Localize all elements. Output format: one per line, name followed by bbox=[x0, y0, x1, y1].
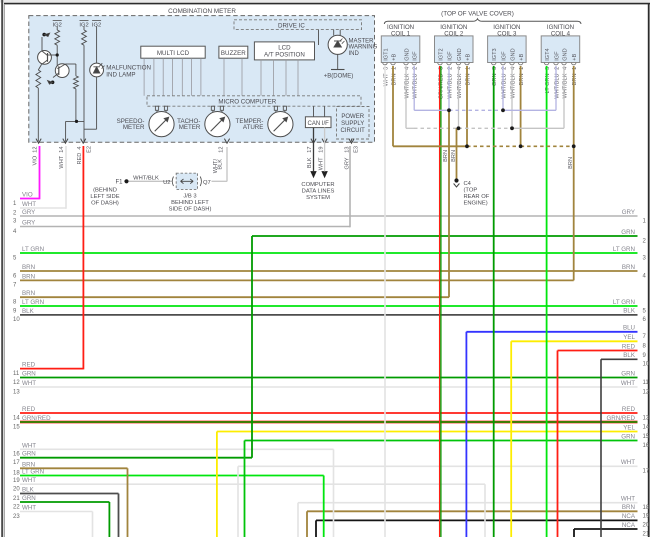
svg-text:IGT1: IGT1 bbox=[383, 48, 389, 60]
svg-text:IGT3: IGT3 bbox=[492, 48, 498, 60]
svg-text:ATURE: ATURE bbox=[243, 124, 264, 131]
svg-text:BRN: BRN bbox=[22, 290, 35, 297]
svg-text:METER: METER bbox=[123, 124, 145, 131]
svg-text:WHT: WHT bbox=[621, 380, 635, 387]
svg-text:GRN: GRN bbox=[621, 229, 635, 236]
svg-text:LT GRN: LT GRN bbox=[22, 246, 44, 253]
svg-text:ENGINE): ENGINE) bbox=[464, 201, 488, 207]
svg-text:GRN: GRN bbox=[22, 371, 36, 378]
svg-text:GND: GND bbox=[562, 48, 568, 60]
svg-text:COMBINATION METER: COMBINATION METER bbox=[168, 8, 236, 15]
svg-text:(BEHIND: (BEHIND bbox=[93, 187, 117, 193]
svg-text:WHT: WHT bbox=[22, 201, 36, 208]
svg-text:RED: RED bbox=[622, 406, 636, 413]
svg-text:WHT 14: WHT 14 bbox=[59, 147, 65, 169]
svg-text:F1: F1 bbox=[115, 180, 123, 186]
svg-text:18: 18 bbox=[643, 505, 650, 511]
svg-text:RED: RED bbox=[22, 362, 36, 369]
svg-text:GRN/RED: GRN/RED bbox=[606, 415, 635, 422]
svg-text:WARNING: WARNING bbox=[349, 45, 378, 51]
svg-text:WHT/BLK: WHT/BLK bbox=[404, 73, 410, 98]
svg-text:LT GRN: LT GRN bbox=[613, 299, 635, 306]
svg-text:BLK: BLK bbox=[307, 157, 313, 168]
svg-text:WHT/BLU: WHT/BLU bbox=[554, 74, 560, 99]
svg-text:BRN: BRN bbox=[22, 273, 35, 280]
svg-text:E2: E2 bbox=[87, 146, 93, 153]
svg-text:WHT/BLK: WHT/BLK bbox=[133, 175, 159, 181]
svg-text:IGF: IGF bbox=[413, 51, 419, 61]
svg-text:GRY: GRY bbox=[622, 209, 635, 216]
svg-text:(TOP OF VALVE COVER): (TOP OF VALVE COVER) bbox=[441, 10, 514, 17]
svg-text:14: 14 bbox=[643, 424, 650, 430]
svg-text:MULTI LCD: MULTI LCD bbox=[157, 50, 190, 57]
svg-text:POWER: POWER bbox=[341, 114, 364, 120]
svg-text:METER: METER bbox=[179, 124, 201, 131]
svg-text:23: 23 bbox=[13, 514, 20, 520]
svg-text:BRN: BRN bbox=[22, 264, 35, 271]
svg-text:WHT/BLU: WHT/BLU bbox=[501, 74, 507, 99]
svg-text:YEL: YEL bbox=[623, 334, 635, 341]
svg-text:12: 12 bbox=[13, 380, 20, 386]
svg-text:13: 13 bbox=[643, 415, 650, 421]
svg-text:10: 10 bbox=[13, 317, 20, 323]
svg-text:GRN: GRN bbox=[22, 495, 36, 502]
svg-text:WHT: WHT bbox=[22, 505, 36, 512]
svg-text:IGT2: IGT2 bbox=[438, 48, 444, 60]
svg-text:4: 4 bbox=[510, 67, 516, 70]
svg-text:GND: GND bbox=[457, 48, 463, 60]
svg-text:WHT: WHT bbox=[318, 157, 324, 170]
svg-text:DATA LINES: DATA LINES bbox=[302, 188, 335, 194]
svg-text:4: 4 bbox=[562, 67, 568, 70]
svg-text:2: 2 bbox=[413, 67, 419, 70]
svg-text:4: 4 bbox=[404, 67, 410, 70]
svg-text:17: 17 bbox=[307, 147, 313, 153]
svg-text:BLK: BLK bbox=[218, 159, 224, 170]
svg-text:WHT: WHT bbox=[22, 442, 36, 449]
svg-text:A/T POSITION: A/T POSITION bbox=[264, 52, 305, 59]
svg-text:IGF: IGF bbox=[501, 51, 507, 61]
svg-text:LT GRN: LT GRN bbox=[22, 469, 44, 476]
svg-text:WHT: WHT bbox=[22, 477, 36, 484]
svg-text:GRY: GRY bbox=[22, 220, 35, 227]
svg-text:GRN: GRN bbox=[22, 451, 36, 458]
svg-text:VIO 12: VIO 12 bbox=[33, 147, 39, 166]
svg-text:2: 2 bbox=[501, 67, 507, 70]
svg-text:BRN: BRN bbox=[622, 264, 635, 271]
svg-text:SUPPLY: SUPPLY bbox=[341, 121, 364, 127]
svg-text:12: 12 bbox=[219, 147, 225, 153]
svg-text:RED: RED bbox=[622, 343, 636, 350]
svg-text:WHT/BLK: WHT/BLK bbox=[510, 73, 516, 98]
svg-text:(TOP: (TOP bbox=[464, 188, 478, 194]
svg-text:+B: +B bbox=[519, 54, 525, 61]
svg-text:22: 22 bbox=[13, 504, 20, 510]
svg-text:20: 20 bbox=[13, 487, 20, 493]
svg-text:BUZZER: BUZZER bbox=[221, 50, 246, 57]
svg-text:DRIVE IC: DRIVE IC bbox=[278, 22, 305, 29]
svg-text:19: 19 bbox=[643, 514, 650, 520]
svg-text:BRN: BRN bbox=[568, 157, 574, 169]
svg-text:+B: +B bbox=[465, 54, 471, 61]
svg-text:E3: E3 bbox=[354, 146, 360, 153]
svg-text:NCA: NCA bbox=[622, 522, 636, 529]
svg-text:BLK: BLK bbox=[22, 308, 35, 315]
svg-text:+B: +B bbox=[391, 54, 397, 61]
svg-text:J/B 3: J/B 3 bbox=[183, 194, 196, 200]
svg-text:14: 14 bbox=[13, 415, 20, 421]
svg-text:2: 2 bbox=[447, 67, 453, 70]
svg-text:WHT/BLU: WHT/BLU bbox=[447, 74, 453, 99]
svg-text:WHT: WHT bbox=[621, 496, 635, 503]
svg-text:RED: RED bbox=[22, 406, 36, 413]
svg-text:BLK: BLK bbox=[623, 352, 636, 359]
svg-text:2: 2 bbox=[554, 67, 560, 70]
svg-text:WHT: WHT bbox=[22, 380, 36, 387]
svg-text:IGF: IGF bbox=[554, 51, 560, 61]
svg-text:MALFUNCTION: MALFUNCTION bbox=[106, 64, 151, 71]
svg-text:WHT/BLK: WHT/BLK bbox=[562, 73, 568, 98]
svg-text:GRN: GRN bbox=[621, 370, 635, 377]
svg-text:BRN: BRN bbox=[443, 150, 449, 162]
svg-text:GND: GND bbox=[510, 48, 516, 60]
svg-text:GRY: GRY bbox=[345, 157, 351, 169]
svg-text:LCD: LCD bbox=[278, 45, 291, 52]
svg-text:18: 18 bbox=[13, 471, 20, 477]
svg-text:LEFT SIDE: LEFT SIDE bbox=[90, 194, 119, 200]
svg-text:IND: IND bbox=[349, 51, 360, 57]
svg-text:WHT/BLK: WHT/BLK bbox=[457, 73, 463, 98]
svg-text:MICRO COMPUTER: MICRO COMPUTER bbox=[218, 99, 276, 106]
svg-text:BRN: BRN bbox=[622, 504, 635, 511]
svg-text:WHT: WHT bbox=[621, 459, 635, 466]
svg-text:BLK: BLK bbox=[623, 308, 636, 315]
svg-text:REAR OF: REAR OF bbox=[464, 194, 490, 200]
svg-text:BEHIND LEFT: BEHIND LEFT bbox=[171, 200, 209, 206]
svg-text:13: 13 bbox=[345, 147, 351, 153]
svg-text:VIO: VIO bbox=[22, 192, 33, 199]
svg-text:11: 11 bbox=[643, 380, 650, 386]
svg-text:GND: GND bbox=[404, 48, 410, 60]
svg-text:4: 4 bbox=[457, 67, 463, 70]
svg-text:CAN I/F: CAN I/F bbox=[308, 121, 330, 127]
svg-text:13: 13 bbox=[13, 389, 20, 395]
svg-text:WHT/BLU: WHT/BLU bbox=[413, 74, 419, 99]
svg-text:17: 17 bbox=[643, 469, 650, 475]
svg-text:15: 15 bbox=[13, 424, 20, 430]
svg-text:COMPUTER: COMPUTER bbox=[301, 182, 334, 188]
svg-text:BRN: BRN bbox=[22, 461, 35, 468]
svg-text:12: 12 bbox=[643, 389, 650, 395]
svg-text:C4: C4 bbox=[464, 181, 472, 187]
svg-text:NCA: NCA bbox=[622, 513, 636, 520]
svg-text:+B: +B bbox=[572, 54, 578, 61]
svg-text:20: 20 bbox=[643, 523, 650, 529]
svg-text:19: 19 bbox=[13, 478, 20, 484]
svg-text:BLK: BLK bbox=[22, 487, 35, 494]
svg-text:SYSTEM: SYSTEM bbox=[306, 195, 330, 201]
svg-text:OF DASH): OF DASH) bbox=[91, 200, 119, 206]
svg-text:17: 17 bbox=[13, 460, 20, 466]
svg-text:IGT4: IGT4 bbox=[545, 48, 551, 60]
svg-text:21: 21 bbox=[13, 496, 20, 502]
svg-text:10: 10 bbox=[643, 362, 650, 368]
svg-text:MASTER: MASTER bbox=[349, 39, 375, 45]
svg-text:+B(DOME): +B(DOME) bbox=[324, 74, 354, 80]
svg-text:16: 16 bbox=[13, 452, 20, 458]
svg-text:CIRCUIT: CIRCUIT bbox=[341, 128, 366, 134]
svg-text:BRN: BRN bbox=[451, 150, 457, 162]
svg-text:15: 15 bbox=[643, 434, 650, 440]
svg-text:LT GRN: LT GRN bbox=[22, 299, 44, 306]
svg-text:IGF: IGF bbox=[447, 51, 453, 61]
svg-text:IND LAMP: IND LAMP bbox=[106, 71, 135, 78]
svg-text:19: 19 bbox=[318, 147, 324, 153]
svg-text:16: 16 bbox=[643, 443, 650, 449]
svg-text:21: 21 bbox=[643, 531, 650, 537]
svg-text:Q7: Q7 bbox=[203, 180, 211, 186]
svg-text:U2: U2 bbox=[163, 180, 170, 186]
svg-text:LT GRN: LT GRN bbox=[613, 246, 635, 253]
svg-text:GRN: GRN bbox=[621, 433, 635, 440]
svg-text:BLU: BLU bbox=[623, 325, 635, 332]
svg-text:GRN/RED: GRN/RED bbox=[22, 415, 51, 422]
svg-text:11: 11 bbox=[13, 371, 20, 377]
svg-text:GRY: GRY bbox=[22, 209, 35, 216]
svg-text:YEL: YEL bbox=[623, 424, 635, 431]
svg-text:RED 4: RED 4 bbox=[77, 147, 83, 165]
svg-text:SIDE OF DASH): SIDE OF DASH) bbox=[169, 207, 212, 213]
